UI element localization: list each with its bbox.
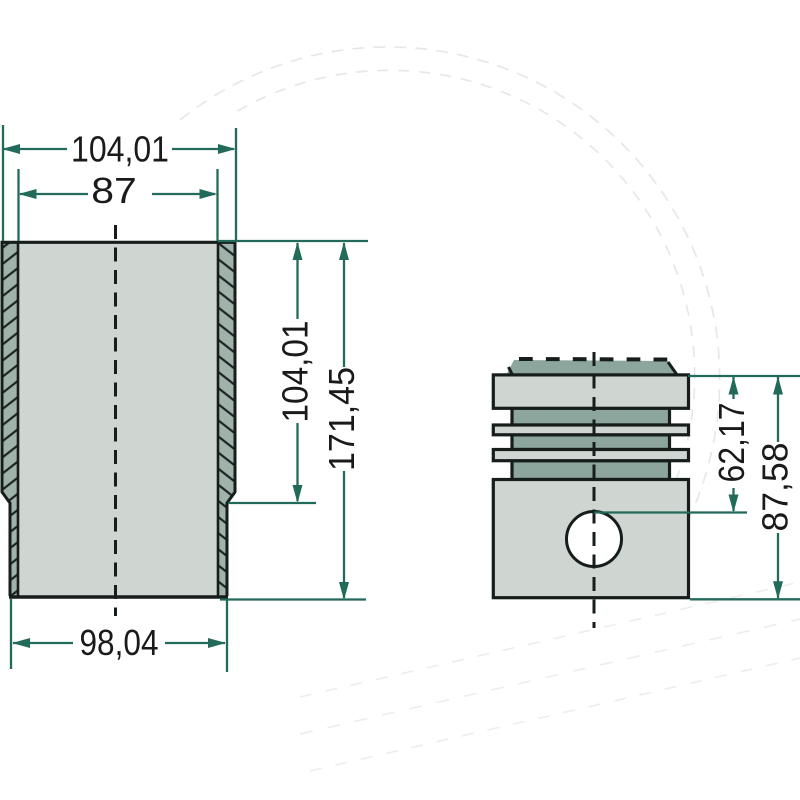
svg-text:171,45: 171,45	[321, 367, 362, 471]
svg-text:62,17: 62,17	[711, 403, 752, 483]
svg-text:87,58: 87,58	[755, 443, 796, 532]
svg-text:104,01: 104,01	[71, 129, 169, 170]
svg-text:87: 87	[91, 170, 137, 211]
svg-text:104,01: 104,01	[275, 321, 316, 423]
svg-text:98,04: 98,04	[80, 622, 159, 663]
